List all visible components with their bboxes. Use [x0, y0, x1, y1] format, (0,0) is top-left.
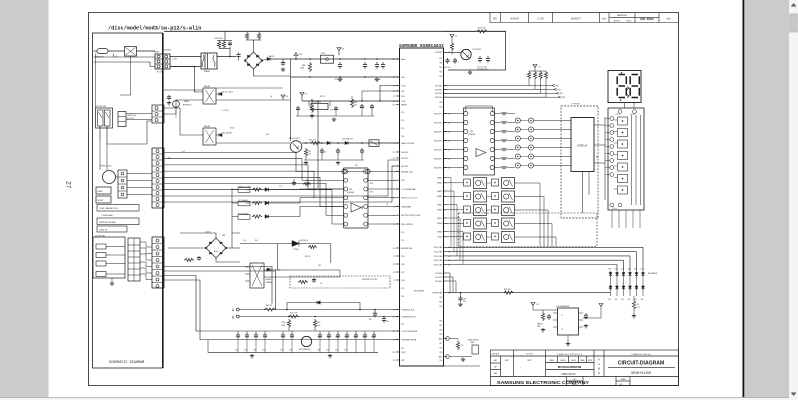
- label box loads 2: [97, 218, 139, 225]
- svg-text:COL+6: COL+6: [612, 208, 617, 210]
- wire opto row: [240, 243, 331, 245]
- svg-text:OPTION: OPTION: [572, 104, 580, 106]
- svg-text:D12: D12: [641, 269, 644, 271]
- diode D42: [267, 268, 270, 271]
- svg-text:REGULATOR: REGULATOR: [468, 338, 479, 341]
- wire bridge2 bottom: [216, 258, 240, 262]
- svg-text:SCHEMATIC DIAGRAM: SCHEMATIC DIAGRAM: [109, 361, 144, 365]
- wire bundle lower bus: [164, 267, 272, 304]
- wire reset loop: [444, 31, 506, 70]
- wire output bus rows: [447, 246, 643, 248]
- connector CN4: [152, 237, 164, 288]
- svg-text:2: 2: [394, 189, 395, 191]
- svg-text:KRC243M: KRC243M: [473, 49, 482, 51]
- svg-text:15: 15: [393, 85, 395, 87]
- svg-text:R62 1K: R62 1K: [305, 256, 311, 258]
- svg-text:VIO(RED): VIO(RED): [163, 49, 171, 51]
- opto triac U02: [292, 241, 299, 247]
- svg-text:PUMP-MOTOR FAN: PUMP-MOTOR FAN: [99, 221, 116, 224]
- svg-text:P45: P45: [401, 256, 404, 258]
- wire bridge bottom rail: [254, 69, 291, 76]
- power flag 12V: [294, 53, 298, 56]
- svg-text:R58: R58: [370, 183, 373, 185]
- resistor R44: [308, 62, 311, 72]
- svg-text:AN0: AN0: [439, 337, 442, 340]
- svg-text:P40: P40: [439, 320, 442, 322]
- svg-text:470: 470: [463, 301, 466, 303]
- svg-text:REF: REF: [494, 373, 497, 375]
- power flag 5V reset: [300, 93, 304, 96]
- svg-text:ZD4: ZD4: [634, 269, 637, 271]
- svg-text:P46: P46: [401, 264, 404, 266]
- svg-text:GRID9: GRID9: [437, 231, 442, 233]
- zener ZD02: [321, 148, 323, 150]
- resistor R42: [245, 32, 248, 40]
- capacitor C29: [335, 106, 337, 108]
- resistor R40: [217, 41, 220, 49]
- svg-text:29: 29: [393, 360, 395, 362]
- ground: [567, 342, 569, 344]
- wire driver top supply: [466, 106, 492, 111]
- relay cell row 3 left TR3: [464, 206, 471, 213]
- svg-text:P40: P40: [439, 360, 442, 362]
- svg-text:C17: C17: [279, 185, 282, 187]
- wire remote ground rail: [304, 159, 364, 161]
- svg-text:P45: P45: [439, 325, 442, 327]
- svg-text:0-P1.6T3: 0-P1.6T3: [127, 118, 134, 120]
- svg-text:GRID5: GRID5: [437, 204, 442, 206]
- svg-text:P51-COM2: P51-COM2: [434, 252, 443, 254]
- svg-text:KS0-P40: KS0-P40: [401, 152, 408, 154]
- buzzer option dashed box: [290, 276, 390, 288]
- svg-text:P43: P43: [439, 347, 442, 349]
- svg-text:C17 1N4003: C17 1N4003: [238, 200, 248, 202]
- svg-text:10D471: 10D471: [205, 232, 211, 234]
- resistor R01: [527, 71, 530, 80]
- resistor R52: [313, 319, 316, 328]
- svg-text:SEG6-P75: SEG6-P75: [434, 159, 442, 161]
- svg-text:COL-1: COL-1: [616, 114, 621, 116]
- svg-text:P44: P44: [439, 76, 442, 78]
- svg-text:LEVER SW: LEVER SW: [127, 115, 137, 117]
- sensor thermistor TH02: [301, 336, 311, 346]
- svg-text:KEY-R07: KEY-R07: [435, 93, 442, 95]
- svg-text:1: 1: [394, 171, 395, 173]
- capacitor C32: [371, 104, 373, 106]
- svg-text:R51 4.7K: R51 4.7K: [290, 312, 298, 314]
- svg-text:REMOCON-P/M: REMOCON-P/M: [401, 143, 414, 145]
- wire key rows to mcu: [164, 160, 400, 196]
- connector CN3 small: [128, 238, 140, 281]
- svg-text:TRANS: TRANS: [204, 70, 211, 73]
- capacitor C48: [374, 311, 376, 313]
- transformer T01: [170, 56, 201, 58]
- svg-text:GRID8: GRID8: [437, 223, 442, 225]
- resistor R47: [308, 245, 317, 248]
- svg-text:C4L: C4L: [362, 336, 365, 338]
- resistor R39: [503, 291, 514, 294]
- wire transformer out: [217, 56, 236, 58]
- svg-text:NO.: NO.: [619, 384, 623, 386]
- svg-text:IC02: IC02: [321, 53, 325, 55]
- transistor Q01 TALL DOOR: [290, 141, 302, 153]
- svg-text:CHECK: CHECK: [571, 360, 576, 362]
- svg-text:P43: P43: [439, 67, 442, 69]
- svg-text:9: 9: [394, 280, 395, 282]
- wire connector feeds: [94, 56, 156, 58]
- relay cell row 5 left TR5: [464, 233, 471, 240]
- wire relay feed vertical: [170, 67, 203, 93]
- svg-text:8: 8: [394, 206, 395, 208]
- relay grid dashed box: [459, 213, 598, 247]
- wire matrix stubs: [605, 118, 610, 120]
- svg-text:KS1-P41: KS1-P41: [401, 158, 408, 160]
- svg-text:P10: P10: [401, 112, 404, 114]
- lamp box L01: [96, 187, 111, 194]
- lamp diode row 2: [609, 286, 612, 289]
- svg-text:RELAY: RELAY: [204, 85, 211, 88]
- svg-text:12: 12: [393, 198, 395, 200]
- svg-text:308: 308: [349, 189, 352, 191]
- capacitor C43 470uF: [339, 62, 341, 64]
- relay cell row 2 right RY2: [492, 193, 499, 200]
- wire xtal ground rail: [296, 115, 374, 117]
- resistor R08 2.2K: [476, 30, 488, 33]
- svg-text:R+: R+: [637, 304, 639, 306]
- svg-text:GR10: GR10: [438, 237, 442, 239]
- svg-text:+B: +B: [270, 96, 272, 98]
- svg-text:SEG5-P74: SEG5-P74: [434, 149, 442, 151]
- wire xbox drop: [120, 56, 131, 95]
- svg-text:REV A B: REV A B: [492, 353, 500, 356]
- svg-text:104: 104: [289, 350, 292, 352]
- capacitor C33: [337, 148, 339, 150]
- diode D05: [262, 59, 267, 61]
- inverter triangle: [351, 203, 361, 212]
- svg-text:104: 104: [335, 350, 338, 352]
- crystal X01: [311, 104, 328, 110]
- wire CN3 to CN4 links: [140, 242, 152, 247]
- wire relay row 1 feed: [444, 182, 464, 184]
- svg-text:SEG3-P72: SEG3-P72: [434, 131, 442, 133]
- svg-text:S I G N: S I G N: [526, 354, 533, 356]
- svg-text:P14: P14: [401, 348, 404, 350]
- resistor R40b: [303, 182, 311, 185]
- svg-text:KEY-R06: KEY-R06: [435, 89, 442, 91]
- svg-text:C H A N G E C A U S E: C H A N G E C A U S E: [631, 353, 651, 356]
- svg-text:26: 26: [393, 331, 395, 333]
- svg-text:21: 21: [393, 152, 395, 154]
- svg-text:KEY-ENTER: KEY-ENTER: [414, 290, 425, 292]
- svg-text:SAMSUNG: SAMSUNG: [617, 14, 628, 17]
- svg-text:P14: P14: [401, 324, 404, 326]
- jack J01 pins: [342, 169, 346, 173]
- svg-text:C4L: C4L: [326, 336, 329, 338]
- svg-text:27: 27: [65, 181, 72, 189]
- wire relay1 aux: [216, 87, 283, 89]
- mcu right inner labels: [433, 52, 443, 358]
- wire AC top bus: [164, 30, 506, 32]
- display module box: [571, 118, 594, 172]
- svg-text:C4L: C4L: [353, 336, 356, 338]
- svg-text:B: B: [232, 315, 234, 319]
- wire key-enter row: [447, 292, 610, 294]
- svg-text:P61-KS5: P61-KS5: [435, 277, 442, 279]
- wire left box verticals: [99, 140, 101, 170]
- svg-text:BCA 700B: BCA 700B: [313, 101, 322, 104]
- svg-text:FLASH-FAN: FLASH-FAN: [401, 205, 411, 208]
- svg-text:P10: P10: [401, 136, 404, 138]
- svg-text:GRID7: GRID7: [437, 218, 442, 220]
- display option dashed box: [561, 106, 598, 218]
- svg-text:/disc/model/mod3/sw-p12/s-wlin: /disc/model/mod3/sw-p12/s-wlin: [108, 26, 201, 32]
- svg-text:DESIGN: DESIGN: [560, 360, 566, 362]
- key matrix block: [608, 108, 644, 210]
- wire resistor bottoms: [219, 48, 230, 50]
- svg-text:25: 25: [393, 316, 395, 318]
- segment transistor pairs: [515, 118, 520, 123]
- resistor R41: [222, 41, 225, 49]
- ground: [542, 328, 544, 330]
- node B: [236, 315, 239, 318]
- resistor R53 4.7K: [633, 296, 635, 300]
- viewer left gray margin: [0, 0, 49, 398]
- svg-text:2001/12/17: 2001/12/17: [561, 372, 576, 376]
- driver IC08 KID65004: [343, 168, 345, 228]
- capacitor C47: [313, 278, 315, 280]
- wire relay1 out: [216, 99, 291, 101]
- svg-text:104: 104: [326, 350, 329, 352]
- svg-text:18: 18: [393, 77, 395, 79]
- svg-text:P41: P41: [439, 297, 442, 299]
- resistor R04: [544, 71, 547, 80]
- svg-text:P10: P10: [401, 288, 404, 290]
- page right edge line: [742, 0, 744, 398]
- svg-text:3: 3: [394, 224, 395, 226]
- svg-text:P54-COM5: P54-COM5: [434, 264, 443, 266]
- svg-text:KS2-P42: KS2-P42: [401, 166, 408, 168]
- diode D06: [327, 141, 330, 144]
- capacitor C44: [364, 62, 366, 64]
- svg-text:( OVEN-LAMP ): ( OVEN-LAMP ): [101, 214, 114, 217]
- mcu right pin stubs: [444, 52, 451, 356]
- svg-text:R39 100: R39 100: [504, 289, 510, 291]
- wire relay row 2 feed: [444, 195, 464, 197]
- svg-text:D04: D04: [615, 269, 618, 271]
- svg-text:P62-KS6: P62-KS6: [435, 281, 442, 283]
- svg-text:R08 2.2K: R08 2.2K: [478, 27, 486, 29]
- svg-text:19: 19: [393, 101, 395, 103]
- ground: [311, 114, 313, 116]
- svg-text:GRID2: GRID2: [437, 183, 442, 185]
- svg-text:D16: D16: [608, 269, 611, 271]
- wire vertical feed B: [317, 101, 319, 188]
- revision table top-right: [490, 13, 679, 23]
- power flag key 5V: [533, 65, 537, 68]
- wire bridge top to resistors: [253, 40, 255, 52]
- connector CN2: [152, 105, 164, 123]
- relay cell row 3 right RY3: [492, 206, 499, 213]
- relay cell row 4 right RY4: [492, 220, 499, 227]
- svg-text:27: 27: [393, 339, 395, 341]
- svg-text:D4C-B+-10LM: D4C-B+-10LM: [222, 91, 233, 93]
- ground: [460, 303, 462, 305]
- svg-text:P46: P46: [439, 334, 442, 336]
- capacitor C03 cluster: [168, 95, 170, 97]
- svg-text:24: 24: [393, 309, 395, 311]
- svg-text:S. NO: S. NO: [537, 19, 543, 21]
- svg-text:R06: R06: [558, 89, 561, 91]
- svg-text:P53-COM4: P53-COM4: [434, 260, 443, 262]
- svg-text:C19: C19: [330, 110, 333, 112]
- mcu aux pins bottom right: [446, 337, 450, 341]
- svg-text:104: 104: [262, 350, 265, 352]
- wire key bus rows: [444, 85, 530, 87]
- svg-text:(M.LAMPS): (M.LAMPS): [648, 272, 658, 275]
- vertical scrollbar track: [789, 0, 798, 400]
- svg-text:0.5W: 0.5W: [246, 203, 250, 205]
- svg-text:17: 17: [393, 96, 395, 98]
- ground: [305, 161, 307, 163]
- svg-text:10: 10: [393, 248, 395, 250]
- capacitor C10 C11 electrolytic: [479, 56, 481, 58]
- relay transformer T02: [250, 263, 264, 288]
- wire matrix verticals down: [611, 210, 613, 228]
- resistor R43: [257, 32, 260, 40]
- capacitor C46: [198, 256, 200, 258]
- svg-text:5: 5: [394, 180, 395, 182]
- svg-text:N A M E: N A M E: [510, 18, 519, 21]
- svg-text:RESET: RESET: [401, 104, 408, 106]
- resistor R46: [184, 258, 194, 261]
- diode D41: [216, 134, 219, 136]
- svg-text:R0L: R0L: [255, 240, 258, 242]
- svg-text:GRAY: GRAY: [154, 51, 160, 54]
- ground: [469, 71, 471, 73]
- svg-text:SEG4-P73: SEG4-P73: [434, 140, 442, 142]
- svg-text:P47: P47: [439, 71, 442, 73]
- wire triac feed bundle: [231, 188, 233, 248]
- svg-text:C4L: C4L: [335, 336, 338, 338]
- svg-text:MGT-SENSOR: MGT-SENSOR: [299, 349, 311, 351]
- wire xin xout: [380, 86, 400, 102]
- capacitor C34: [361, 148, 363, 150]
- svg-text:CIRCUIT-DIAGRAM: CIRCUIT-DIAGRAM: [618, 361, 664, 367]
- svg-text:SEG1-P70: SEG1-P70: [434, 113, 442, 115]
- seven segment display DS01: [608, 71, 641, 103]
- zener box ZD01: [369, 140, 379, 147]
- svg-text:TRANS: TRANS: [266, 281, 273, 284]
- wire relay row 5 feed: [444, 236, 464, 238]
- relay cell row 4 left TR4: [464, 220, 471, 227]
- relay cell row 1 right RY1: [492, 179, 499, 186]
- capacitor C38: [460, 296, 462, 298]
- svg-text:23: 23: [393, 166, 395, 168]
- svg-text:P42: P42: [439, 306, 442, 308]
- svg-text:GRID1: GRID1: [437, 177, 442, 179]
- svg-text:11: 11: [393, 256, 395, 258]
- svg-text:INTER-LOCK: INTER-LOCK: [100, 166, 112, 168]
- display driver IC03: [464, 108, 495, 175]
- ground: [339, 78, 341, 80]
- svg-text:P52-COM3: P52-COM3: [434, 256, 443, 258]
- wire fuse drop: [95, 53, 97, 108]
- wire opto vertical: [277, 244, 279, 271]
- svg-text:P41: P41: [439, 329, 442, 331]
- resistor R48b: [298, 280, 308, 283]
- svg-text:P45: P45: [439, 301, 442, 303]
- svg-text:10u: 10u: [386, 321, 389, 323]
- ground: [168, 101, 170, 103]
- title block: [491, 350, 679, 386]
- diode loop: [287, 303, 360, 310]
- wire photo symbol: [173, 101, 180, 108]
- connector P.CON: [155, 54, 170, 69]
- power flag out: [599, 304, 603, 307]
- svg-text:4: 4: [394, 143, 395, 145]
- svg-text:HI.DN COOL.U-P+O: HI.DN COOL.U-P+O: [401, 198, 418, 200]
- svg-text:F0115: F0115: [572, 384, 578, 386]
- wire opto down: [330, 244, 332, 264]
- svg-text:R05: R05: [556, 85, 559, 87]
- resistor R15: [304, 148, 307, 157]
- wire relay2 to transistor: [216, 142, 290, 144]
- svg-text:P40: P40: [439, 352, 442, 354]
- diode D40: [216, 93, 219, 95]
- svg-text:DRFT: DRFT: [527, 360, 532, 362]
- svg-text:42: 42: [393, 59, 395, 61]
- svg-text:3+: 3+: [561, 315, 563, 317]
- svg-text:COOK-CHECK-P0B: COOK-CHECK-P0B: [401, 331, 418, 333]
- capacitor C40: [229, 42, 231, 44]
- capacitor C52: [472, 345, 479, 354]
- wire vertical feed A: [290, 77, 292, 141]
- svg-text:CODE: CODE: [626, 21, 632, 23]
- wire display right links: [594, 124, 605, 126]
- svg-text:BUZZER-P4B: BUZZER-P4B: [401, 248, 413, 250]
- svg-text:C4L: C4L: [317, 336, 320, 338]
- svg-text:R0: R0: [595, 156, 597, 158]
- svg-text:NO. 6532: NO. 6532: [640, 17, 654, 21]
- ground: [633, 314, 635, 316]
- svg-text:P47: P47: [439, 343, 442, 345]
- svg-text:D40 1N4148: D40 1N4148: [222, 132, 232, 134]
- capacitor C51: [585, 313, 587, 315]
- viewer right gray margin: [745, 0, 790, 398]
- lever switch connector: [118, 112, 126, 127]
- svg-text:BUZZER-CON: BUZZER-CON: [401, 171, 413, 173]
- svg-text:WIRE: WIRE: [184, 101, 190, 103]
- svg-text:24V/RST: 24V/RST: [435, 52, 442, 54]
- svg-text:KD85004: KD85004: [347, 192, 354, 194]
- interlock contact strip: [118, 170, 127, 198]
- wire bridge2 right: [226, 247, 240, 249]
- resistor R45 1M: [350, 98, 353, 108]
- wire bridge2 left: [168, 247, 206, 249]
- svg-text:DRFT: DRFT: [505, 360, 509, 362]
- svg-text:LAMP: LAMP: [98, 190, 104, 193]
- wire relay row 3 feed: [444, 209, 464, 211]
- wire cn2 feed: [164, 89, 203, 91]
- power flag 5V: [337, 48, 341, 51]
- wire 12V vertical: [290, 59, 292, 77]
- svg-text:MF: MF: [494, 366, 496, 368]
- svg-text:22: 22: [393, 158, 395, 160]
- wire resistor tops: [217, 40, 232, 42]
- svg-text:14: 14: [393, 272, 395, 274]
- ground: [333, 118, 335, 120]
- svg-text:P48: P48: [401, 280, 404, 282]
